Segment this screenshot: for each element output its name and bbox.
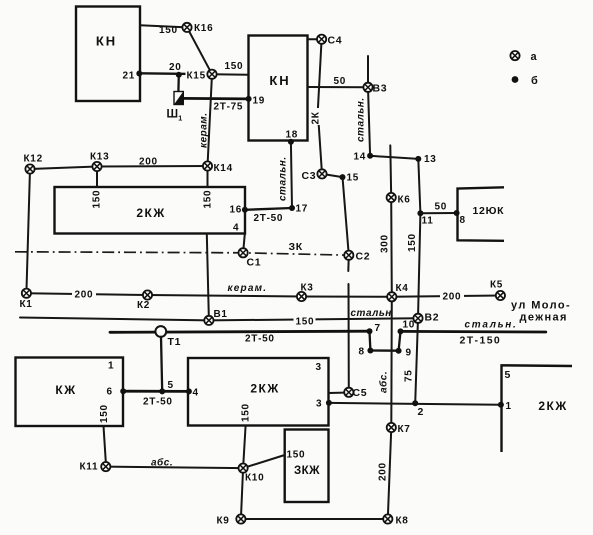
svg-text:К9: К9 [217,516,230,527]
svg-text:б: б [531,75,538,87]
svg-text:2Т-50: 2Т-50 [254,213,284,224]
building 2КЖ (upper) [55,187,246,234]
svg-text:К2: К2 [137,300,150,311]
node К2 [143,290,152,299]
dash-dot line ЗК through С1 and С2 [15,252,349,255]
svg-text:14: 14 [354,152,367,163]
wire С2 down to С5 upper part [347,255,350,271]
label 150 on water main [294,315,316,328]
node 2 [412,400,418,406]
wire node 20 down to Ш1 [177,75,180,92]
node В2 [413,314,422,323]
svg-text:75: 75 [404,369,415,382]
svg-text:5: 5 [505,369,512,381]
node 16 [242,207,248,213]
svg-text:К4: К4 [396,283,409,294]
svg-text:К6: К6 [398,195,411,206]
node 11 [417,210,423,216]
well chamber Ш1 [174,92,183,105]
svg-text:керам.: керам. [228,283,268,294]
svg-text:2КЖ: 2КЖ [250,382,279,396]
wire building 2КЖ down to В1 [207,234,209,321]
svg-text:5: 5 [168,380,174,391]
node С5 [344,388,353,397]
node 8 bypass [367,348,373,354]
svg-text:К5: К5 [490,280,503,291]
svg-text:К16: К16 [194,23,213,34]
wire building КЖ down to К11 [104,426,106,462]
svg-text:ЗК: ЗК [289,241,303,253]
svg-text:150: 150 [407,233,418,252]
wire С3 to node 15 [322,174,343,177]
node К12 [25,164,34,173]
svg-text:Т1: Т1 [168,336,182,348]
wire К10 to ЗКЖ [243,455,285,468]
svg-text:19: 19 [253,96,266,107]
svg-text:150: 150 [203,190,214,209]
legend symbol б [512,76,519,83]
svg-text:150: 150 [159,25,178,36]
wire node 13 down through 11 to В2 [418,159,420,318]
node С2 [344,251,353,260]
node С4 [317,35,326,44]
svg-text:150: 150 [241,403,252,422]
node 9 bypass [396,348,402,354]
svg-text:С5: С5 [353,387,368,399]
node С1 [239,248,248,257]
node К15 [207,70,216,79]
node 3 [326,400,332,406]
svg-text:дежная: дежная [520,312,568,324]
svg-text:17: 17 [296,204,309,215]
node К13 [92,162,101,171]
svg-text:200: 200 [378,462,389,481]
wire node 3 to node 2 to node 1 [329,403,501,405]
svg-text:2К: 2К [311,111,322,124]
node К6 [387,193,396,202]
svg-text:6: 6 [107,387,113,398]
heat main Т1 left (2Т-50) [110,331,370,332]
svg-text:В2: В2 [425,312,440,324]
svg-text:200: 200 [139,157,158,168]
node К16 [182,23,191,32]
svg-text:8: 8 [460,215,466,226]
label К15 [186,70,207,82]
svg-text:2Т-75: 2Т-75 [214,102,244,113]
wire С5 to building 2КЖ edge [329,392,348,395]
node К3 [297,292,306,301]
building 12ЮК bracket [458,187,505,241]
svg-text:300: 300 [380,234,391,253]
svg-text:С4: С4 [328,35,343,47]
node 20 [176,72,182,78]
svg-text:а: а [531,51,538,63]
svg-text:К13: К13 [90,152,109,163]
svg-text:1: 1 [506,401,512,412]
svg-text:стальн.: стальн. [278,156,289,201]
node С3 [317,169,326,178]
node 10 [398,328,404,334]
svg-text:9: 9 [406,348,412,359]
node 15 [340,174,346,180]
wire С2 down to С5 lower part [348,284,350,392]
building ЗКЖ [285,430,329,503]
legend symbol а [510,51,519,60]
wire К2-К3 [148,295,302,297]
node 1 [498,402,504,408]
svg-text:150: 150 [225,61,244,72]
svg-text:абс.: абс. [151,457,173,469]
svg-text:К8: К8 [396,516,409,527]
building КН (top-left) [76,7,140,102]
svg-text:К15: К15 [187,71,206,82]
node 18 [288,139,294,145]
node 21 [136,71,142,77]
svg-text:150: 150 [99,404,110,423]
svg-text:18: 18 [286,130,299,141]
svg-text:2КЖ: 2КЖ [136,206,165,220]
svg-text:К10: К10 [245,473,264,484]
svg-text:К3: К3 [301,283,314,294]
node К4 [387,292,396,301]
svg-text:В3: В3 [373,83,388,95]
svg-text:16: 16 [230,205,243,216]
svg-text:С3: С3 [302,170,317,182]
svg-text:150: 150 [92,190,103,209]
svg-text:КЖ: КЖ [55,383,76,397]
wire С4 down to С3 (2К) [318,39,322,174]
svg-text:В1: В1 [214,309,228,320]
node К7 [387,423,396,432]
svg-text:стальн: стальн [351,308,392,319]
svg-text:ул Моло-: ул Моло- [511,300,571,312]
svg-text:20: 20 [169,62,182,73]
svg-text:К14: К14 [214,163,233,174]
building 2КЖ (bottom-centre) [188,358,329,426]
svg-text:50: 50 [435,202,448,213]
svg-text:абс.: абс. [378,371,390,393]
svg-text:2: 2 [418,406,425,418]
wire К16 to К15 [187,27,212,74]
wire Ш1 to node 19 (2Т-75) [182,97,249,100]
svg-text:К7: К7 [398,424,411,435]
wire water main В1-В2 left part [20,318,209,321]
node 6 [120,388,126,394]
svg-text:150: 150 [287,450,306,461]
wire node 15 down to С2 [343,177,349,255]
svg-text:керам.: керам. [199,113,210,148]
wire К15 to building КН [212,73,249,76]
wire node 6-5-4 (2Т-50) [123,390,189,393]
svg-text:15: 15 [347,173,360,184]
svg-text:стальн.: стальн. [465,320,518,331]
node 17 [289,205,295,211]
node 4 [186,388,192,394]
wire building 2КЖ down to К10 [243,426,246,469]
heat main right (2Т-150) [401,330,546,333]
chamber Т1 circle [155,326,166,337]
wire К13 down into building 2КЖ [96,167,98,188]
svg-text:К1: К1 [20,299,33,310]
svg-text:150: 150 [296,317,315,328]
svg-text:7: 7 [375,323,381,334]
node К9 [236,514,245,523]
wire К12 down to К1 [26,169,30,293]
node К14 [203,161,212,170]
svg-text:2Т-50: 2Т-50 [245,334,275,345]
wire node 11 to node 8 [420,212,456,214]
wire К10 down to К9 [241,468,243,519]
svg-text:200: 200 [75,290,94,301]
svg-text:КН: КН [96,34,117,49]
wire В3 down to node 14 [368,87,370,156]
node 19 [246,96,252,102]
svg-text:4: 4 [193,388,199,399]
wire К9 to К8 [241,518,388,520]
node К10 [239,464,248,473]
wire node 4 corner down to С1 [243,234,245,253]
svg-text:3: 3 [316,362,322,373]
svg-text:К12: К12 [24,154,43,165]
svg-text:КН: КН [269,73,290,88]
label 2К vertical [311,108,322,125]
node 14 [367,153,373,159]
svg-text:200: 200 [443,292,462,303]
label 200 on К1-К2 [72,288,96,301]
wire К13 to К14 [97,165,208,168]
svg-text:2КЖ: 2КЖ [538,399,567,413]
svg-text:С2: С2 [356,251,371,263]
node В1 [204,316,213,325]
wire node 17 to node 16 (2Т-50) [245,208,292,210]
svg-text:13: 13 [424,154,437,165]
building КН (upper-middle) [249,36,308,141]
svg-text:1: 1 [108,361,114,372]
svg-text:К11: К11 [80,462,99,473]
svg-text:21: 21 [123,71,136,82]
wire КН to В3 [308,86,369,88]
wire node 14 to node 13 [370,156,418,159]
wire К15 down to К14 [208,74,213,166]
node В3 [363,83,372,92]
building 2КЖ (right) bracket [502,365,573,452]
wire К12 to К13 [30,167,97,170]
building КЖ (bottom-left) [16,358,124,427]
wire node 21 to node 20 to К15 [140,72,212,75]
wire 300 line down through К6 to К4 [390,145,392,296]
wire В2 down to node 2 [415,318,418,403]
wire node 18 down to node 17 [291,142,292,208]
svg-text:4: 4 [233,223,239,234]
wire К1-К2 [26,293,147,295]
wire КН to К16 [140,25,187,27]
svg-text:50: 50 [334,76,347,87]
node 8 at 12ЮК [454,210,460,216]
wire К4-К5 [392,296,501,297]
svg-text:2Т-150: 2Т-150 [460,335,502,347]
svg-text:стальн.: стальн. [356,97,367,142]
wire К3-К4 [302,296,392,298]
svg-text:8: 8 [359,347,365,358]
node 5 [159,388,165,394]
wire К14 down into building 2КЖ [207,166,209,187]
node 13 [415,156,421,162]
wire К4 down to К7 (абс.) [390,297,393,428]
svg-text:3: 3 [316,399,322,410]
bypass 7-8-9-10 under heat main [370,331,401,351]
node 7 [367,328,373,334]
svg-text:10: 10 [403,320,416,331]
svg-text:11: 11 [422,216,434,227]
wire К11 to К10 (абс.) [106,467,243,469]
label 200 on К4-К5 [440,290,464,303]
wire В3 stub up [367,56,369,87]
node К11 [101,462,110,471]
svg-text:12ЮК: 12ЮК [473,205,505,217]
svg-text:ЗКЖ: ЗКЖ [294,465,320,477]
svg-text:С1: С1 [247,257,262,269]
wire Т1 down to node 5 [161,337,162,392]
node К5 [496,291,505,300]
svg-text:2Т-50: 2Т-50 [143,397,173,408]
node К8 [383,514,392,523]
wire КН to С4 [308,38,322,40]
wire К7 down to К8 [388,428,392,520]
node К1 [22,289,31,298]
wire water main В1-В2 right part [209,318,418,320]
